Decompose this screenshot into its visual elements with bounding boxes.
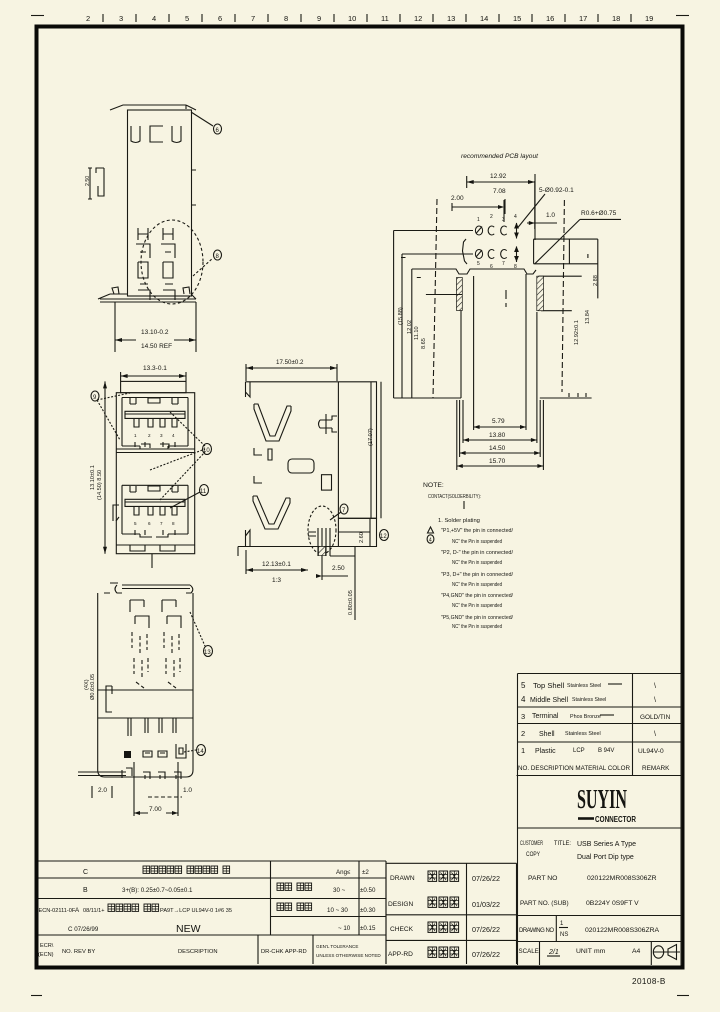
svg-text:REMARK: REMARK bbox=[642, 765, 670, 772]
row2 centerline bbox=[402, 253, 473, 255]
svg-text:PART NO. (SUB): PART NO. (SUB) bbox=[520, 900, 569, 907]
svg-text:3+(B): 0.25±0.7~0.05±0.1: 3+(B): 0.25±0.7~0.05±0.1 bbox=[122, 887, 193, 894]
svg-text:07/26/22: 07/26/22 bbox=[472, 874, 500, 883]
svg-text:8.65: 8.65 bbox=[421, 338, 427, 349]
svg-text:Phos Bronze: Phos Bronze bbox=[570, 714, 601, 720]
lower port opening bbox=[122, 485, 188, 537]
channel left wall bbox=[473, 276, 475, 430]
svg-text:NC" the Pin in suspended: NC" the Pin in suspended bbox=[452, 560, 502, 566]
revision table bbox=[38, 861, 386, 964]
svg-text:13.10-0.2: 13.10-0.2 bbox=[141, 329, 169, 336]
svg-text:±2: ±2 bbox=[362, 869, 369, 876]
note marker triangle bbox=[428, 527, 434, 533]
callout 13 leader bbox=[190, 612, 205, 646]
bottom step right bbox=[238, 518, 377, 556]
rev table grid bbox=[39, 861, 387, 964]
shell body outline bbox=[128, 110, 192, 296]
svg-text:5.79: 5.79 bbox=[492, 418, 505, 425]
VIEW3: front view dual ports bbox=[90, 365, 212, 568]
upper contacts bbox=[134, 418, 177, 427]
svg-text:±0.30: ±0.30 bbox=[360, 907, 376, 914]
dim arrows bbox=[115, 339, 196, 341]
small rect center bbox=[322, 475, 332, 490]
svg-text:NC" the Pin in suspended: NC" the Pin in suspended bbox=[452, 603, 502, 609]
hole row1 bbox=[475, 226, 482, 235]
svg-text:A4: A4 bbox=[632, 948, 641, 955]
svg-text:DESIGN: DESIGN bbox=[388, 901, 414, 908]
svg-text:13.80: 13.80 bbox=[489, 432, 506, 439]
svg-text:2/1: 2/1 bbox=[548, 949, 559, 956]
bottom edge left bbox=[394, 397, 461, 399]
svg-text:UNLESS OTHERWISE NOTED: UNLESS OTHERWISE NOTED bbox=[316, 953, 381, 958]
svg-text:CONNECTOR: CONNECTOR bbox=[595, 815, 636, 824]
svg-text:5: 5 bbox=[521, 681, 526, 690]
center tick marks bbox=[505, 290, 507, 307]
left hatch pad bbox=[457, 278, 463, 311]
svg-text:12.02: 12.02 bbox=[407, 320, 413, 334]
pin hatch bbox=[319, 547, 326, 556]
svg-text:recommended PCB layout: recommended PCB layout bbox=[461, 153, 539, 160]
VIEW5: bottom view bbox=[78, 583, 213, 816]
svg-text:07/26/22: 07/26/22 bbox=[472, 925, 500, 934]
svg-text:12.92: 12.92 bbox=[490, 173, 507, 180]
svg-text:R0.6+Ø0.75: R0.6+Ø0.75 bbox=[581, 210, 617, 217]
callout 11 leader bbox=[170, 492, 200, 508]
upper port spring windows bbox=[130, 398, 178, 404]
svg-text:4: 4 bbox=[514, 214, 517, 220]
svg-text:14: 14 bbox=[480, 14, 488, 23]
left outer wall bbox=[411, 269, 413, 398]
svg-text:B 94V: B 94V bbox=[598, 748, 614, 754]
svg-text:2.88: 2.88 bbox=[593, 275, 599, 286]
svg-text:CONTACT(SOLDERBILITY):: CONTACT(SOLDERBILITY): bbox=[428, 494, 481, 500]
svg-text:1.0: 1.0 bbox=[546, 212, 555, 219]
svg-text:2.0: 2.0 bbox=[98, 787, 107, 794]
svg-text:NO. DESCRIPTION MATERIAL COLOR: NO. DESCRIPTION MATERIAL COLOR bbox=[518, 765, 631, 772]
bottom edge right bbox=[540, 393, 592, 398]
svg-text:20108-B: 20108-B bbox=[632, 977, 666, 986]
approval table bbox=[386, 863, 517, 964]
svg-text:8: 8 bbox=[216, 254, 220, 260]
VIEW2: recommended PCB layout bbox=[394, 153, 621, 470]
svg-text:ECR\: ECR\ bbox=[40, 943, 54, 949]
right step lines bbox=[539, 276, 582, 311]
left hook bbox=[106, 686, 112, 712]
upper port opening bbox=[122, 398, 188, 450]
svg-text:4: 4 bbox=[429, 538, 432, 544]
svg-text:LCP: LCP bbox=[573, 748, 585, 754]
svg-text:17.50±0.2: 17.50±0.2 bbox=[276, 359, 304, 366]
U bracket pin bbox=[176, 744, 186, 758]
row1 centerline bbox=[394, 230, 473, 232]
shell body bbox=[246, 382, 339, 547]
lower tongue bbox=[125, 499, 185, 506]
svg-text:NEW: NEW bbox=[176, 923, 201, 935]
housing right bbox=[338, 382, 376, 519]
svg-text:5: 5 bbox=[185, 14, 189, 23]
svg-text:UL94V-0: UL94V-0 bbox=[638, 748, 664, 755]
callout circle 7 bbox=[340, 504, 348, 514]
svg-text:Top Shell: Top Shell bbox=[533, 681, 565, 690]
svg-text:NOTE:: NOTE: bbox=[423, 482, 444, 489]
svg-text:13.10±0.1: 13.10±0.1 bbox=[90, 465, 96, 490]
svg-text:(14.50) 8.50: (14.50) 8.50 bbox=[97, 470, 103, 500]
svg-text:~ 10: ~ 10 bbox=[338, 925, 351, 932]
svg-text:(ECN): (ECN) bbox=[38, 952, 54, 958]
mid tabs bbox=[135, 442, 175, 447]
middle band bbox=[98, 690, 193, 718]
spring cut group right bbox=[162, 600, 181, 628]
svg-text:10: 10 bbox=[203, 448, 210, 454]
dashed ref line bbox=[148, 796, 182, 798]
svg-text:9: 9 bbox=[93, 395, 97, 401]
svg-text:NO. REV BY: NO. REV BY bbox=[62, 949, 95, 955]
svg-text:30 ~: 30 ~ bbox=[333, 887, 346, 894]
callout 7 leader bbox=[330, 512, 341, 520]
svg-text:Ang≤: Ang≤ bbox=[336, 869, 351, 876]
svg-text:PA9T→LCP UL94V-0 1#6 35: PA9T→LCP UL94V-0 1#6 35 bbox=[160, 908, 232, 914]
svg-text:19: 19 bbox=[645, 14, 653, 23]
parts list table bbox=[517, 674, 683, 776]
svg-text:6: 6 bbox=[148, 521, 151, 526]
rev row B tolerance bbox=[277, 883, 312, 890]
upper V spring bbox=[254, 404, 291, 441]
svg-text:8: 8 bbox=[284, 14, 288, 23]
slot C middle bbox=[150, 126, 163, 142]
svg-text:020122MR008S306ZR: 020122MR008S306ZR bbox=[587, 875, 657, 882]
svg-text:SCALE: SCALE bbox=[519, 948, 539, 955]
svg-text:8: 8 bbox=[172, 521, 175, 526]
svg-text:5: 5 bbox=[477, 261, 480, 267]
svg-text:Dual Port Dip type: Dual Port Dip type bbox=[577, 854, 634, 861]
svg-text:11.10: 11.10 bbox=[414, 326, 420, 340]
body outline bbox=[98, 593, 193, 777]
svg-text:7: 7 bbox=[160, 521, 163, 526]
callout circle 9 bbox=[91, 391, 99, 401]
corner fold dash top-left bbox=[31, 15, 44, 17]
svg-text:Plastic: Plastic bbox=[535, 748, 556, 755]
corner fold dash bottom-right bbox=[677, 995, 689, 997]
body outline bbox=[116, 393, 194, 554]
lower V spring bbox=[253, 496, 290, 529]
svg-text:07/26/22: 07/26/22 bbox=[472, 950, 500, 959]
svg-text:C 07/26/99: C 07/26/99 bbox=[68, 926, 99, 933]
hole5 extension line bbox=[467, 174, 535, 240]
callout 9 leader bbox=[97, 393, 130, 440]
svg-text:2.60: 2.60 bbox=[359, 532, 365, 543]
svg-text:14: 14 bbox=[197, 749, 204, 755]
callout 6 leader top bbox=[191, 112, 213, 126]
right slot box bbox=[534, 239, 598, 298]
svg-text:08/11/1+: 08/11/1+ bbox=[83, 908, 105, 914]
svg-text:15.70: 15.70 bbox=[489, 458, 506, 465]
left lead lines bbox=[78, 772, 126, 776]
svg-text:2.00: 2.00 bbox=[451, 195, 464, 202]
svg-text:020122MR008S306ZRA: 020122MR008S306ZRA bbox=[585, 927, 660, 934]
VIEW1: top view of dual USB connector bbox=[85, 105, 222, 352]
svg-text:4: 4 bbox=[152, 14, 156, 23]
callout circle 13 bbox=[204, 646, 213, 657]
svg-text:2.50: 2.50 bbox=[332, 565, 345, 572]
svg-text:\: \ bbox=[654, 683, 656, 690]
upper contact numbers bbox=[134, 433, 175, 438]
foot detail left bbox=[112, 287, 119, 294]
top flange bbox=[121, 381, 186, 392]
svg-text:DR-CHK APP-RD: DR-CHK APP-RD bbox=[261, 949, 307, 955]
svg-text:18: 18 bbox=[612, 14, 620, 23]
slot U right bbox=[172, 126, 181, 143]
svg-text:3: 3 bbox=[119, 14, 123, 23]
corner fold dash bottom-left bbox=[31, 995, 42, 997]
svg-text:"P4,GND" the pin in connected/: "P4,GND" the pin in connected/ bbox=[441, 593, 513, 599]
svg-text:GEN'L TOLERANCE: GEN'L TOLERANCE bbox=[316, 944, 358, 949]
dashed inspection ellipse bbox=[141, 220, 203, 304]
svg-text:(4X): (4X) bbox=[84, 679, 90, 690]
svg-text:4: 4 bbox=[172, 433, 175, 438]
svg-text:mm: mm bbox=[594, 948, 606, 955]
svg-text:Stainless Steel: Stainless Steel bbox=[567, 683, 601, 689]
callout circle 6 bbox=[214, 124, 222, 134]
svg-text:UNIT: UNIT bbox=[576, 948, 592, 955]
svg-text:(17.07): (17.07) bbox=[368, 428, 374, 446]
body side ticks bbox=[192, 170, 197, 205]
svg-text:NS: NS bbox=[560, 932, 568, 938]
approval grid bbox=[386, 862, 517, 864]
side latch bracket left bbox=[96, 168, 104, 196]
callout 10 leader bbox=[150, 412, 205, 500]
latch dim ticks bbox=[88, 168, 92, 199]
svg-text:14.50 REF: 14.50 REF bbox=[141, 343, 172, 350]
svg-text:GOLD/TIN: GOLD/TIN bbox=[640, 714, 671, 721]
left step tick bbox=[401, 258, 462, 295]
svg-text:NC" the Pin in suspended: NC" the Pin in suspended bbox=[452, 539, 502, 545]
note marker circle 4 bbox=[427, 535, 434, 543]
connector line bbox=[578, 817, 594, 820]
svg-text:Stainless Steel: Stainless Steel bbox=[572, 697, 606, 703]
SUYIN logo block bbox=[518, 776, 682, 829]
svg-text:3: 3 bbox=[521, 712, 525, 721]
callout circle 11 bbox=[200, 485, 209, 496]
pin tails bbox=[128, 718, 176, 736]
svg-text:3: 3 bbox=[160, 433, 163, 438]
svg-text:13: 13 bbox=[204, 650, 211, 656]
dashed centerline left bbox=[433, 199, 437, 398]
svg-text:±0.50: ±0.50 bbox=[360, 887, 376, 894]
svg-text:2: 2 bbox=[86, 14, 90, 23]
svg-text:1: 1 bbox=[560, 921, 564, 927]
svg-text:B: B bbox=[83, 887, 88, 894]
pin numbers row2 bbox=[477, 261, 517, 270]
svg-text:CHECK: CHECK bbox=[390, 926, 414, 933]
svg-text:1. Solder plating: 1. Solder plating bbox=[438, 518, 480, 524]
rev row A tolerance bbox=[277, 903, 312, 910]
svg-text:APP-RD: APP-RD bbox=[388, 951, 413, 958]
svg-text:1: 1 bbox=[477, 217, 480, 223]
callout circle 12 bbox=[380, 530, 389, 541]
svg-text:6: 6 bbox=[218, 14, 222, 23]
svg-text:4: 4 bbox=[521, 695, 526, 704]
svg-text:2: 2 bbox=[490, 214, 493, 220]
svg-text:USB Series A Type: USB Series A Type bbox=[577, 841, 636, 848]
lower mid tabs bbox=[135, 530, 175, 535]
svg-text:0B224Y 0S9FT V: 0B224Y 0S9FT V bbox=[586, 900, 639, 907]
svg-text:Middle Shell: Middle Shell bbox=[530, 695, 568, 704]
svg-text:3: 3 bbox=[502, 217, 505, 223]
pins bottom bbox=[308, 528, 330, 556]
svg-text:A: A bbox=[75, 907, 80, 914]
upper tongue bbox=[125, 411, 185, 418]
lower port spring windows bbox=[130, 486, 178, 492]
svg-text:"P5,GND" the pin in connected/: "P5,GND" the pin in connected/ bbox=[441, 615, 513, 621]
top center clip bbox=[319, 414, 338, 434]
callout 8 leader bbox=[193, 258, 213, 276]
svg-text:13.3-0.1: 13.3-0.1 bbox=[143, 365, 167, 372]
left inner wall bbox=[460, 311, 462, 399]
svg-text:DRAWN: DRAWN bbox=[390, 875, 415, 882]
callout circle 14 bbox=[197, 745, 206, 756]
dim extension lines bottom bbox=[115, 302, 196, 352]
lower contact numbers bbox=[134, 521, 175, 526]
svg-text:11: 11 bbox=[381, 14, 389, 23]
left dim line bbox=[104, 381, 106, 553]
rear slot group right bbox=[161, 228, 175, 300]
left small hook bbox=[113, 505, 119, 521]
svg-text:CUSTOMER: CUSTOMER bbox=[520, 840, 543, 847]
pin numbers row1 bbox=[477, 214, 517, 223]
svg-text:1: 1 bbox=[521, 746, 525, 755]
svg-text:01/03/22: 01/03/22 bbox=[472, 900, 500, 909]
svg-text:1: 1 bbox=[134, 433, 137, 438]
dashed centerline right bbox=[562, 200, 564, 392]
svg-text:11: 11 bbox=[200, 489, 207, 495]
logo box bbox=[518, 776, 682, 829]
callout circle 8 bbox=[214, 250, 222, 260]
hole row2 pos4 arrow bbox=[516, 247, 518, 263]
svg-text:NC" the Pin in suspended: NC" the Pin in suspended bbox=[452, 582, 502, 588]
svg-text:7: 7 bbox=[251, 14, 255, 23]
rear slot group left bbox=[136, 228, 150, 300]
corner fold dash top-right bbox=[676, 15, 689, 17]
slot U left bbox=[131, 126, 140, 143]
title block bbox=[518, 828, 682, 965]
svg-text:2: 2 bbox=[521, 729, 525, 738]
parts table grid bbox=[518, 674, 682, 776]
svg-text:"P3, D+" the pin in connected/: "P3, D+" the pin in connected/ bbox=[441, 572, 513, 578]
svg-text:14.50: 14.50 bbox=[489, 445, 506, 452]
top flange bbox=[110, 105, 196, 110]
svg-text:15: 15 bbox=[513, 14, 521, 23]
svg-text:13.84: 13.84 bbox=[585, 310, 591, 324]
svg-text:Stainless Steel: Stainless Steel bbox=[565, 731, 601, 737]
svg-text:TITLE:: TITLE: bbox=[554, 840, 571, 847]
svg-text:10 ~ 30: 10 ~ 30 bbox=[327, 907, 348, 914]
lower contacts bbox=[134, 506, 177, 515]
inner brackets left bbox=[254, 448, 272, 483]
svg-text:7.00: 7.00 bbox=[149, 806, 162, 813]
svg-text:12.13±0.1: 12.13±0.1 bbox=[262, 561, 291, 568]
svg-text:5-Ø0.92-0.1: 5-Ø0.92-0.1 bbox=[539, 187, 574, 194]
svg-text:Shell: Shell bbox=[539, 731, 555, 738]
svg-text:\: \ bbox=[654, 697, 656, 704]
notes block bbox=[423, 482, 513, 630]
hole row1 pos4 arrow bbox=[516, 223, 518, 239]
svg-text:PART NO: PART NO bbox=[528, 875, 557, 882]
svg-text:"P1,+5V" the pin in connected/: "P1,+5V" the pin in connected/ bbox=[441, 528, 513, 534]
svg-text:"P2, D-" the pin in connected/: "P2, D-" the pin in connected/ bbox=[441, 550, 513, 556]
svg-text:5: 5 bbox=[134, 521, 137, 526]
callout 14 leader bbox=[184, 750, 196, 752]
svg-text:9: 9 bbox=[317, 14, 321, 23]
svg-text:Ø0.6±0.05: Ø0.6±0.05 bbox=[90, 674, 96, 700]
bottom notches bbox=[116, 545, 194, 568]
bottom hooks bbox=[122, 768, 181, 779]
right hatch pad bbox=[537, 276, 544, 311]
svg-text:2: 2 bbox=[148, 433, 151, 438]
ruler scale marks top bbox=[86, 14, 653, 23]
third angle projection symbol bbox=[653, 946, 663, 958]
svg-text:DRAWING NO: DRAWING NO bbox=[519, 928, 554, 934]
svg-text:(15.88): (15.88) bbox=[398, 307, 404, 325]
contact pads row bbox=[124, 751, 131, 758]
svg-text:COPY: COPY bbox=[526, 851, 541, 858]
svg-text:17: 17 bbox=[579, 14, 587, 23]
svg-text:\: \ bbox=[654, 731, 656, 738]
svg-text:Terminal: Terminal bbox=[532, 713, 559, 720]
svg-text:DESCRIPTION: DESCRIPTION bbox=[178, 949, 218, 955]
title grid bbox=[518, 828, 682, 965]
svg-text:13: 13 bbox=[447, 14, 455, 23]
svg-text:12: 12 bbox=[380, 534, 387, 540]
profile top edge bbox=[412, 269, 536, 274]
svg-text:10: 10 bbox=[348, 14, 356, 23]
svg-text:6: 6 bbox=[216, 128, 220, 134]
VIEW4: side section view bbox=[238, 359, 389, 620]
spring cut group left bbox=[130, 600, 149, 628]
svg-text:NC" the Pin in suspended: NC" the Pin in suspended bbox=[452, 624, 502, 630]
top plate bbox=[104, 583, 193, 593]
svg-text:±0.15: ±0.15 bbox=[360, 925, 376, 932]
svg-text:7: 7 bbox=[502, 261, 505, 267]
svg-text:1.0: 1.0 bbox=[183, 787, 192, 794]
mid separator lines bbox=[116, 444, 194, 453]
callout circle 10 bbox=[203, 444, 212, 455]
hole5 bracket bbox=[463, 239, 468, 264]
svg-text:16: 16 bbox=[546, 14, 554, 23]
bottom flange bbox=[98, 294, 196, 302]
svg-text:7.08: 7.08 bbox=[493, 188, 506, 195]
center rounded slot bbox=[288, 459, 314, 473]
svg-text:12: 12 bbox=[414, 14, 422, 23]
svg-text:ECN-02111-0F: ECN-02111-0F bbox=[39, 908, 76, 914]
left row extension verticals bbox=[394, 231, 402, 399]
svg-text:7: 7 bbox=[342, 508, 346, 514]
svg-text:1:3: 1:3 bbox=[272, 577, 281, 584]
svg-text:0.80±0.05: 0.80±0.05 bbox=[348, 590, 354, 615]
hole row2 bbox=[475, 250, 482, 259]
svg-text:SUYIN: SUYIN bbox=[577, 784, 627, 814]
pin area dashed circle bbox=[308, 506, 336, 554]
svg-text:C: C bbox=[83, 869, 88, 876]
svg-text:12.92±0.1: 12.92±0.1 bbox=[574, 320, 580, 345]
foot detail right bbox=[183, 287, 190, 294]
